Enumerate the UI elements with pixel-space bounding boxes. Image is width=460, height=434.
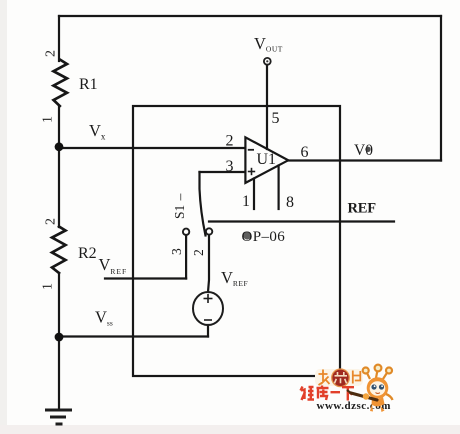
svg-text:8: 8 — [286, 194, 294, 211]
wire top feedback — [59, 15, 441, 17]
svg-text:6: 6 — [301, 144, 309, 161]
switch S1 wiper arm — [200, 172, 206, 236]
wire pin 1 stub — [253, 179, 255, 210]
logo char zhao — [319, 370, 330, 386]
svg-text:VREF: VREF — [99, 255, 128, 276]
svg-text:R1: R1 — [79, 76, 98, 93]
resistor R2 — [52, 227, 66, 274]
svg-text:U1: U1 — [257, 151, 277, 168]
wire left rail top — [58, 16, 60, 61]
svg-text:3: 3 — [169, 248, 184, 255]
op-amp U1 triangle — [245, 137, 288, 183]
wire switch contact 2 to source top — [208, 235, 209, 292]
wire node Vx to pin 2 — [59, 147, 245, 149]
svg-text:2: 2 — [226, 133, 234, 150]
source plus sign — [204, 294, 213, 303]
mascot crown antennae — [363, 365, 392, 379]
logo maroon circle behind second char — [332, 369, 350, 387]
svg-text:Vss: Vss — [95, 308, 113, 328]
wire pin 8 stub — [278, 166, 280, 210]
svg-text:5: 5 — [272, 110, 280, 127]
wire Vref1 horizontal stub — [105, 277, 186, 279]
scan shading left edge — [0, 0, 7, 434]
mascot right arm — [386, 394, 393, 400]
logo mascot — [348, 365, 393, 412]
mascot head ring — [367, 377, 389, 399]
char yi — [331, 391, 341, 393]
ground — [45, 410, 72, 424]
scan shading bottom edge — [0, 425, 460, 434]
wire rail bottom node to ground — [58, 337, 60, 410]
char ku — [317, 386, 329, 401]
source Vref circle — [193, 292, 223, 325]
logo char pian — [353, 371, 361, 384]
svg-text:R2: R2 — [78, 245, 97, 262]
svg-text:1: 1 — [41, 116, 56, 123]
source minus sign — [204, 319, 212, 321]
wire bottom node horizontal — [59, 335, 208, 337]
node Vss junction dot — [55, 333, 64, 342]
mascot brush arm — [351, 393, 377, 400]
svg-text:REF: REF — [348, 201, 377, 217]
wire pin 3 input — [200, 171, 246, 173]
mascot body — [372, 397, 385, 406]
mascot eyes — [371, 384, 376, 389]
svg-text:S1 –: S1 – — [172, 193, 187, 219]
mascot face — [370, 381, 386, 395]
node Vx junction dot — [55, 142, 64, 151]
op-amp plus input sign — [248, 168, 255, 175]
logo text weiku yixia — [301, 386, 355, 401]
mascot legs — [370, 404, 373, 412]
box device outline — [133, 106, 340, 376]
wire source bottom — [207, 325, 209, 337]
wire rail R1 to node Vx — [58, 106, 60, 147]
svg-text:2: 2 — [44, 50, 59, 57]
switch S1 contact circle pin 3 — [183, 229, 189, 235]
mascot mouth — [376, 392, 381, 395]
switch S1 contact circle pin 2 — [206, 228, 212, 234]
svg-text:Vx: Vx — [89, 121, 106, 142]
svg-text:VOUT: VOUT — [254, 34, 283, 54]
wire output VO net — [288, 159, 441, 161]
char xia — [342, 387, 354, 400]
svg-text:1: 1 — [242, 193, 250, 210]
wire REF line — [209, 220, 394, 222]
svg-text:2: 2 — [191, 249, 206, 256]
char wei — [301, 387, 315, 401]
op-amp minus input sign — [248, 149, 254, 151]
wire rail R2 to bottom node — [58, 273, 60, 337]
resistor R1 — [54, 60, 68, 107]
logo watermark dzsc — [301, 365, 393, 412]
svg-text:2: 2 — [44, 218, 59, 225]
logo char xin on circle — [335, 372, 348, 383]
svg-text:3: 3 — [226, 158, 234, 175]
wire right feedback vertical — [440, 16, 442, 161]
svg-text:1: 1 — [41, 283, 56, 290]
wire pin 5 from Vout terminal — [266, 65, 268, 149]
logo char zhao halo — [315, 369, 363, 386]
svg-text:VREF: VREF — [221, 268, 248, 288]
terminal Vout circle — [264, 58, 271, 65]
wire switch contact 3 down — [185, 235, 187, 279]
wire rail Vx to R2 — [58, 148, 60, 227]
